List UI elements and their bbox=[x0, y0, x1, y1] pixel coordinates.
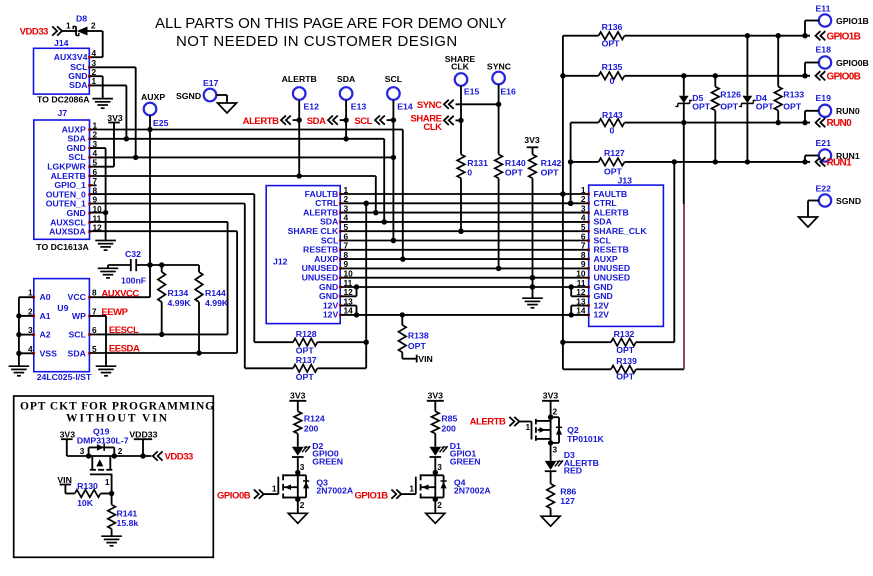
svg-text:R134: R134 bbox=[168, 288, 189, 298]
resistor R143 bbox=[571, 110, 810, 136]
wire Q4 source to ground bbox=[433, 497, 443, 514]
wire D1 to Q4 drain bbox=[433, 457, 443, 475]
wire U9 address pins to ground bbox=[16, 297, 34, 366]
test point E18 GPIO0B bbox=[805, 45, 869, 76]
svg-text:R124: R124 bbox=[304, 414, 325, 424]
resistor R86 bbox=[547, 472, 577, 517]
svg-text:3V3: 3V3 bbox=[524, 135, 540, 145]
svg-text:VSS: VSS bbox=[40, 348, 58, 358]
svg-text:200: 200 bbox=[441, 424, 456, 434]
svg-text:SCL: SCL bbox=[69, 330, 87, 340]
wire J7 AUXSDA row to EESDA bbox=[90, 231, 238, 353]
net label SCL (red, off-page) bbox=[354, 116, 393, 127]
svg-text:WITHOUT VIN: WITHOUT VIN bbox=[66, 413, 169, 425]
diode D4 (schottky) bbox=[739, 36, 774, 162]
svg-text:SDA: SDA bbox=[69, 80, 88, 90]
svg-text:GPIO0B: GPIO0B bbox=[836, 58, 869, 68]
wire J7 OUTEN_0 row to R128 bbox=[90, 194, 255, 342]
svg-text:AUXSDA: AUXSDA bbox=[49, 227, 86, 237]
wire U9 WP to ground bbox=[89, 316, 106, 366]
svg-text:E15: E15 bbox=[464, 87, 480, 97]
svg-text:RUN0: RUN0 bbox=[836, 106, 860, 116]
svg-text:7: 7 bbox=[92, 306, 97, 316]
svg-text:OPT: OPT bbox=[541, 168, 560, 178]
wire J7 AUXP row bbox=[90, 130, 406, 262]
svg-text:200: 200 bbox=[304, 424, 319, 434]
wire bus row pin3 J12-J13 bbox=[340, 210, 589, 215]
svg-text:R139: R139 bbox=[616, 356, 637, 366]
svg-text:3V3: 3V3 bbox=[107, 113, 123, 123]
svg-text:8: 8 bbox=[92, 288, 97, 298]
wire J7 OUTEN_1 row to R137 bbox=[90, 204, 245, 369]
resistor R133 bbox=[774, 36, 804, 123]
svg-text:R132: R132 bbox=[614, 329, 635, 339]
wire D2 to Q3 drain bbox=[295, 457, 305, 475]
wire J13 pin13 stub bbox=[571, 306, 589, 315]
svg-text:3: 3 bbox=[553, 445, 558, 455]
resistor R126 bbox=[712, 76, 742, 162]
net label ALERTB (red, off-page, Q2 gate) bbox=[470, 417, 520, 428]
svg-text:1: 1 bbox=[409, 483, 414, 493]
svg-text:CLK: CLK bbox=[423, 122, 442, 133]
svg-text:WP: WP bbox=[72, 311, 86, 321]
svg-text:OPT CKT FOR PROGRAMMING: OPT CKT FOR PROGRAMMING bbox=[20, 401, 215, 413]
svg-text:RED: RED bbox=[564, 466, 582, 476]
svg-text:2: 2 bbox=[28, 306, 33, 316]
svg-text:ALERTB: ALERTB bbox=[470, 417, 506, 428]
svg-text:15.8k: 15.8k bbox=[117, 518, 139, 528]
resistor R138 bbox=[399, 315, 429, 359]
svg-text:3: 3 bbox=[28, 325, 33, 335]
svg-text:SDA: SDA bbox=[337, 74, 356, 84]
test point E21 RUN1 bbox=[805, 138, 860, 162]
svg-text:J12: J12 bbox=[273, 257, 288, 267]
ground E22 (signal ground triangle) bbox=[799, 217, 818, 227]
power port 3V3 (Q2 cell) bbox=[542, 391, 559, 401]
svg-text:ALERTB: ALERTB bbox=[243, 116, 279, 127]
wire U9 VCC to AUXVCC bbox=[89, 296, 150, 298]
svg-text:SDA: SDA bbox=[68, 348, 87, 358]
svg-text:OPT: OPT bbox=[296, 346, 315, 356]
power port 3V3 (Q19) bbox=[60, 430, 76, 440]
svg-text:A2: A2 bbox=[40, 330, 51, 340]
IC U9 24LC025 bbox=[28, 279, 97, 382]
svg-text:EESDA: EESDA bbox=[109, 344, 140, 355]
wire FAULTB/GPIO0B vertical (left of J13) bbox=[560, 36, 565, 370]
svg-text:J7: J7 bbox=[58, 108, 68, 118]
svg-text:127: 127 bbox=[560, 496, 575, 506]
svg-text:EEWP: EEWP bbox=[101, 307, 128, 318]
power port VIN (R130) bbox=[57, 475, 71, 494]
power port VIN (R138) bbox=[412, 354, 433, 364]
net label SYNC (red, off-page) bbox=[417, 100, 501, 111]
svg-text:E12: E12 bbox=[304, 102, 320, 112]
svg-text:4: 4 bbox=[28, 344, 33, 354]
svg-text:AUXP: AUXP bbox=[141, 92, 165, 102]
wire E13 column bbox=[343, 100, 348, 139]
wire AUXP column E25 down to AUXVCC node bbox=[147, 115, 152, 297]
svg-text:R144: R144 bbox=[205, 288, 226, 298]
svg-text:2: 2 bbox=[300, 500, 305, 510]
wire J7 ALERTB row bbox=[90, 173, 379, 215]
capacitor C32 bbox=[121, 249, 146, 286]
svg-text:10K: 10K bbox=[77, 498, 94, 508]
resistor R135 bbox=[563, 62, 810, 86]
svg-text:SCL: SCL bbox=[385, 74, 403, 84]
svg-text:R133: R133 bbox=[783, 90, 804, 100]
net label GPIO1B (red, off-page) bbox=[816, 31, 861, 42]
net label RUN0 (red, off-page) bbox=[816, 118, 853, 129]
svg-text:OPT: OPT bbox=[616, 372, 635, 382]
ground C32 bbox=[98, 265, 119, 278]
svg-text:OPT: OPT bbox=[604, 167, 623, 177]
svg-text:VIN: VIN bbox=[418, 354, 432, 364]
svg-text:OPT: OPT bbox=[296, 372, 315, 382]
svg-text:SDA: SDA bbox=[307, 116, 326, 127]
svg-text:GPIO0B: GPIO0B bbox=[217, 490, 251, 501]
svg-text:E22: E22 bbox=[816, 184, 832, 194]
svg-text:2N7002A: 2N7002A bbox=[454, 486, 491, 496]
resistor R132 bbox=[563, 329, 674, 355]
svg-text:TO DC1613A: TO DC1613A bbox=[36, 242, 89, 252]
wire RUN0/CTRL vertical (left of J13) bbox=[568, 123, 573, 206]
svg-text:0: 0 bbox=[610, 126, 615, 136]
svg-text:R143: R143 bbox=[602, 110, 623, 120]
wire EESDA row bbox=[89, 352, 237, 354]
wire bus row pin6 J12-J13 bbox=[340, 238, 589, 243]
svg-text:E25: E25 bbox=[153, 118, 169, 128]
svg-text:2: 2 bbox=[553, 407, 558, 417]
svg-text:J13: J13 bbox=[618, 176, 633, 186]
svg-text:RUN1: RUN1 bbox=[827, 158, 853, 169]
svg-text:GREEN: GREEN bbox=[312, 456, 343, 466]
wire VDD33 to D8 anode bbox=[62, 30, 77, 32]
svg-text:3: 3 bbox=[437, 462, 442, 472]
diode D8 (schottky) bbox=[66, 14, 96, 36]
svg-text:OPT: OPT bbox=[408, 341, 427, 351]
wire bus row pin1 J12-J13 bbox=[340, 191, 589, 196]
svg-text:SYNC: SYNC bbox=[487, 61, 512, 71]
svg-text:3V3: 3V3 bbox=[60, 430, 76, 440]
wire 3V3 to Q2 source bbox=[548, 401, 558, 420]
svg-text:VDD33: VDD33 bbox=[20, 27, 49, 38]
svg-text:3V3: 3V3 bbox=[290, 391, 306, 401]
svg-text:J14: J14 bbox=[54, 38, 69, 48]
svg-text:E19: E19 bbox=[816, 93, 832, 103]
wire E14 column bbox=[391, 100, 396, 243]
svg-text:A0: A0 bbox=[40, 292, 51, 302]
svg-text:E21: E21 bbox=[816, 138, 832, 148]
wire AUXVCC node row bbox=[108, 262, 199, 267]
svg-text:100nF: 100nF bbox=[121, 276, 146, 286]
ground E17 (signal ground triangle) bbox=[218, 103, 237, 113]
svg-text:E14: E14 bbox=[397, 102, 413, 112]
svg-text:2: 2 bbox=[91, 21, 96, 31]
test point E15 SHARE CLK bbox=[445, 54, 480, 97]
OPT CKT FOR PROGRAMMING box bbox=[14, 396, 215, 557]
ground J14 GND bbox=[92, 98, 113, 100]
connector J13 bbox=[576, 176, 663, 327]
resistor R127 bbox=[571, 148, 810, 177]
net label SHARE CLK (red, off-page) bbox=[410, 113, 463, 133]
svg-text:R135: R135 bbox=[602, 62, 623, 72]
svg-text:E11: E11 bbox=[816, 4, 831, 14]
svg-text:R86: R86 bbox=[560, 487, 576, 497]
svg-text:E16: E16 bbox=[500, 87, 516, 97]
svg-text:4: 4 bbox=[92, 48, 97, 58]
power port 3V3 (Q4 cell) bbox=[427, 391, 444, 401]
resistor R141 bbox=[108, 494, 139, 536]
svg-text:1: 1 bbox=[272, 483, 277, 493]
test point E11 GPIO1B bbox=[805, 4, 869, 36]
wire J7 GND pins to ground bbox=[90, 148, 109, 240]
resistor R140 bbox=[495, 84, 526, 271]
wire 3V3 to Q19 source bbox=[67, 439, 92, 458]
ground GND rows (middle) bbox=[522, 297, 543, 299]
resistor R137 bbox=[245, 355, 366, 382]
wire J7 SDA row bbox=[90, 136, 387, 224]
net label ALERTB (red, off-page) bbox=[243, 116, 300, 127]
svg-text:D8: D8 bbox=[76, 14, 87, 24]
resistor R128 bbox=[254, 329, 369, 356]
power port 3V3 (Q3 cell) bbox=[289, 391, 306, 401]
svg-text:NOT NEEDED IN CUSTOMER DESIGN: NOT NEEDED IN CUSTOMER DESIGN bbox=[176, 33, 458, 50]
LED D2 GPIO0 GREEN bbox=[292, 441, 343, 466]
test point E22 SGND bbox=[808, 184, 861, 218]
ground U9 WP bbox=[96, 365, 117, 367]
power port VDD33 (Q19 drain) bbox=[129, 430, 157, 459]
transistor Q3 2N7002A (NMOS) bbox=[263, 473, 354, 500]
transistor Q2 TP0101K (PMOS) bbox=[520, 417, 605, 454]
svg-text:R136: R136 bbox=[602, 22, 623, 32]
diode D5 (schottky) bbox=[675, 76, 710, 204]
ground R86 (signal ground triangle) bbox=[541, 516, 560, 526]
svg-text:TP0101K: TP0101K bbox=[567, 434, 604, 444]
wire bus row pin14 J12-J13 bbox=[340, 312, 589, 317]
svg-text:VCC: VCC bbox=[68, 292, 87, 302]
wire bus row pin5 J12-J13 bbox=[340, 229, 589, 234]
svg-text:1: 1 bbox=[66, 21, 71, 31]
svg-text:2: 2 bbox=[437, 500, 442, 510]
svg-text:3V3: 3V3 bbox=[543, 391, 559, 401]
svg-text:VDD33: VDD33 bbox=[129, 430, 157, 440]
connector J12 bbox=[266, 185, 353, 324]
svg-text:GPIO1B: GPIO1B bbox=[354, 490, 388, 501]
svg-text:R85: R85 bbox=[441, 414, 457, 424]
test point E17 SGND bbox=[176, 78, 227, 103]
wire J12 pin12 stub bbox=[340, 287, 356, 296]
svg-text:C32: C32 bbox=[125, 249, 141, 259]
svg-text:3V3: 3V3 bbox=[428, 391, 444, 401]
wire bus row pin9 J12-J13 bbox=[340, 266, 589, 271]
wire bus row pin7 J12-J13 bbox=[340, 249, 589, 251]
wire bus row pin11 J12-J13 bbox=[340, 284, 589, 289]
svg-text:R126: R126 bbox=[720, 90, 741, 100]
power flag VDD33 (top left) bbox=[20, 26, 62, 37]
wire J14 GND to ground bbox=[89, 76, 102, 98]
wire R139 to RUN0 row (dark red segment) bbox=[683, 204, 685, 369]
net label RUN1 (red, off-page) bbox=[816, 157, 853, 168]
svg-text:R141: R141 bbox=[117, 509, 138, 519]
resistor R136 bbox=[563, 22, 810, 49]
svg-text:12V: 12V bbox=[594, 310, 610, 320]
svg-text:GPIO0B: GPIO0B bbox=[827, 71, 861, 82]
wire bus row pin10 J12-J13 bbox=[340, 275, 589, 280]
test point E1x ALERTB bbox=[282, 74, 317, 100]
svg-text:1: 1 bbox=[105, 477, 110, 487]
svg-text:E17: E17 bbox=[203, 78, 219, 88]
svg-text:1: 1 bbox=[28, 288, 33, 298]
svg-text:SCL: SCL bbox=[354, 116, 372, 127]
svg-text:OPT: OPT bbox=[756, 102, 775, 112]
svg-text:R127: R127 bbox=[604, 148, 625, 158]
svg-text:R128: R128 bbox=[296, 329, 317, 339]
svg-text:R137: R137 bbox=[296, 355, 317, 365]
wire J7 AUXSCL row to EESCL bbox=[90, 222, 228, 335]
ground R141 bbox=[101, 535, 122, 537]
svg-text:OPT: OPT bbox=[602, 39, 621, 49]
resistor R124 bbox=[294, 401, 325, 447]
svg-text:VIN: VIN bbox=[57, 475, 71, 485]
test point E19 RUN0 bbox=[805, 93, 860, 123]
connector J7 bbox=[34, 108, 102, 252]
resistor R85 bbox=[432, 401, 458, 447]
wire J7 SCL row bbox=[90, 156, 394, 158]
wire bus row pin4 J12-J13 bbox=[340, 219, 589, 224]
wire J14 SDA to J7 SDA bbox=[89, 85, 129, 141]
svg-text:R130: R130 bbox=[77, 481, 98, 491]
svg-text:E18: E18 bbox=[816, 45, 832, 55]
svg-text:R131: R131 bbox=[467, 158, 488, 168]
svg-text:0: 0 bbox=[610, 76, 615, 86]
svg-text:2N7002A: 2N7002A bbox=[316, 486, 353, 496]
resistor R131 bbox=[457, 86, 488, 234]
svg-text:GPIO1B: GPIO1B bbox=[827, 31, 861, 42]
net label GPIO1B (red, off-page) bbox=[354, 490, 401, 502]
svg-text:CLK: CLK bbox=[451, 61, 470, 71]
svg-text:VDD33: VDD33 bbox=[165, 452, 194, 463]
test point E16 SYNC bbox=[487, 61, 516, 96]
transistor Q19 DMP3130L-7 (PMOS) bbox=[77, 427, 129, 494]
net label VDD33 (red, off-page) bbox=[114, 451, 193, 462]
svg-text:SYNC: SYNC bbox=[417, 100, 442, 111]
ground U9 address bbox=[9, 365, 30, 367]
wire J12 pin13 stub bbox=[340, 306, 356, 315]
power port 3V3 (J7 LGKPWR) bbox=[107, 113, 123, 123]
wire Q3 source to ground bbox=[295, 497, 305, 514]
svg-text:TO DC2086A: TO DC2086A bbox=[37, 95, 90, 105]
LED D3 ALERTB RED bbox=[545, 443, 599, 476]
ground Q3 (signal ground triangle) bbox=[288, 513, 307, 523]
wire D8 cathode to J14 pin4 bbox=[88, 31, 103, 57]
LED D1 GPIO1 GREEN bbox=[429, 441, 480, 466]
svg-text:4.99K: 4.99K bbox=[205, 298, 229, 308]
svg-text:R140: R140 bbox=[505, 158, 526, 168]
svg-text:2: 2 bbox=[118, 446, 123, 456]
svg-text:E13: E13 bbox=[351, 102, 367, 112]
svg-text:GPIO1B: GPIO1B bbox=[836, 16, 869, 26]
svg-text:OPT: OPT bbox=[692, 102, 711, 112]
svg-text:OPT: OPT bbox=[783, 102, 802, 112]
resistor R144 bbox=[195, 265, 229, 356]
resistor R130 bbox=[65, 481, 114, 508]
svg-text:OPT: OPT bbox=[616, 345, 635, 355]
svg-text:EESCL: EESCL bbox=[109, 325, 139, 336]
svg-text:AUXVCC: AUXVCC bbox=[101, 288, 139, 299]
wire R132 to RUN1 row bbox=[672, 159, 677, 342]
svg-text:1: 1 bbox=[526, 422, 531, 432]
wire EESCL row bbox=[89, 333, 227, 335]
svg-text:3: 3 bbox=[300, 462, 305, 472]
svg-text:R142: R142 bbox=[541, 158, 562, 168]
svg-text:OPT: OPT bbox=[505, 168, 524, 178]
net label GPIO0B (red, off-page) bbox=[816, 71, 861, 82]
wire 3V3 to J7 pin5 bbox=[90, 123, 115, 167]
wire bus row pin2 J12-J13 bbox=[340, 201, 589, 206]
wire CTRL vertical (R128/R137 to J12 pin2) bbox=[364, 201, 369, 369]
wire J7 pin7 stub bbox=[90, 184, 97, 186]
svg-text:0: 0 bbox=[467, 168, 472, 178]
connector J14 bbox=[34, 38, 97, 105]
svg-text:AUX3V4: AUX3V4 bbox=[54, 52, 88, 62]
wire bus row pin8 J12-J13 bbox=[340, 256, 589, 261]
svg-text:R138: R138 bbox=[408, 331, 429, 341]
svg-text:A1: A1 bbox=[40, 311, 51, 321]
svg-text:12V: 12V bbox=[323, 310, 339, 320]
ground J7 GND bbox=[95, 240, 116, 242]
svg-text:U9: U9 bbox=[57, 303, 68, 313]
svg-text:GREEN: GREEN bbox=[450, 456, 481, 466]
net label SDA (red, off-page) bbox=[307, 116, 346, 127]
test point E1x SDA bbox=[337, 74, 356, 100]
resistor R134 bbox=[158, 265, 192, 337]
ground Q4 (signal ground triangle) bbox=[426, 513, 445, 523]
test point E25 AUXP bbox=[141, 92, 169, 128]
net label GPIO0B (red, off-page) bbox=[217, 490, 264, 502]
svg-text:RUN0: RUN0 bbox=[827, 118, 853, 129]
power port 3V3 (R142) bbox=[524, 135, 540, 147]
svg-text:3: 3 bbox=[80, 446, 85, 456]
svg-text:SGND: SGND bbox=[176, 91, 201, 101]
svg-text:SGND: SGND bbox=[836, 196, 861, 206]
wire E12 column bbox=[297, 100, 302, 176]
wire J13 pin12 stub bbox=[571, 287, 589, 296]
svg-text:24LC025-I/ST: 24LC025-I/ST bbox=[37, 372, 92, 382]
transistor Q4 2N7002A (NMOS) bbox=[401, 473, 492, 500]
svg-text:OPT: OPT bbox=[720, 102, 739, 112]
wire J14 SCL to J7 SCL bbox=[89, 67, 138, 160]
test point E1x SCL bbox=[385, 74, 403, 100]
svg-text:ALL PARTS ON THIS PAGE ARE FOR: ALL PARTS ON THIS PAGE ARE FOR DEMO ONLY bbox=[155, 15, 506, 32]
resistor R142 bbox=[529, 147, 562, 298]
svg-text:ALERTB: ALERTB bbox=[282, 74, 317, 84]
resistor R139 bbox=[563, 356, 684, 382]
svg-text:DMP3130L-7: DMP3130L-7 bbox=[77, 436, 129, 446]
svg-text:4.99K: 4.99K bbox=[168, 298, 192, 308]
